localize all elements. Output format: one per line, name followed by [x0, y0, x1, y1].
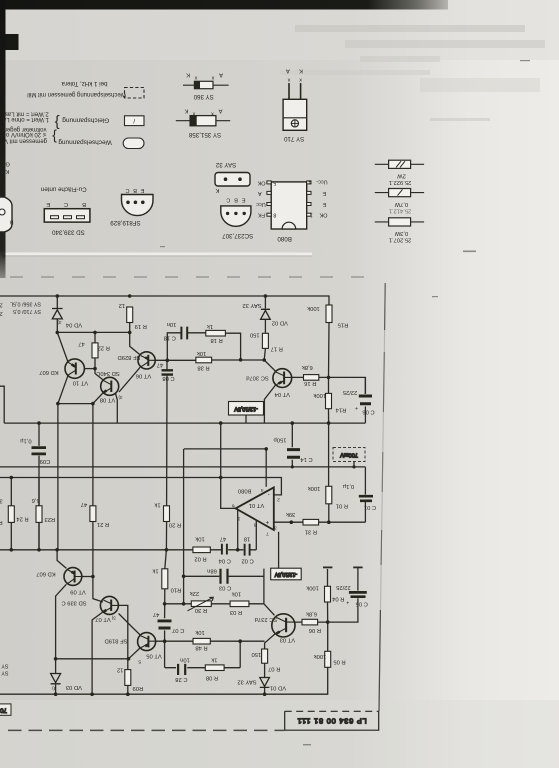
node row550-R23	[37, 548, 41, 552]
svg-text:2W: 2W	[397, 173, 406, 179]
svg-text:C 02: C 02	[241, 558, 253, 564]
svg-text:Ucc: Ucc	[256, 201, 266, 207]
legend symbol: dashed box (AC voltage frame)	[125, 88, 145, 99]
wire rail tick C05	[353, 566, 362, 568]
wire opamp pin1 column	[237, 510, 239, 550]
wire R02 C03 column	[183, 478, 185, 604]
resistor R38	[196, 357, 212, 363]
wire R23 column	[38, 478, 40, 550]
capacitor C08	[162, 370, 174, 374]
wire VT08 collector to row 423	[116, 394, 118, 423]
node row423-C14	[291, 421, 295, 425]
node bus296-R19	[128, 294, 132, 298]
svg-text:0,3W: 0,3W	[394, 230, 408, 236]
svg-text:C 01: C 01	[364, 504, 376, 510]
svg-text:OK: OK	[319, 212, 327, 218]
svg-text:E: E	[46, 201, 50, 207]
svg-text:100k: 100k	[313, 392, 326, 398]
node row641-C07	[163, 639, 167, 643]
wire left edge stub	[0, 386, 4, 423]
capacitor C02	[245, 544, 250, 556]
svg-text:2: 2	[0, 302, 3, 308]
node row360-C08	[166, 359, 170, 363]
svg-text:+: +	[355, 405, 358, 411]
wire R14 column to row 423	[328, 409, 330, 423]
wire feedback row 477	[0, 478, 281, 495]
node row550-pin1	[236, 548, 240, 552]
wire R30 R03 row	[165, 603, 264, 605]
svg-text:SAY 32: SAY 32	[242, 302, 261, 308]
wire C06 top column	[364, 377, 366, 394]
svg-text:0,1µ: 0,1µ	[342, 483, 354, 489]
bottom fold dashed line	[8, 729, 285, 731]
svg-text:K: K	[1, 252, 5, 258]
svg-text:25.412.1: 25.412.1	[389, 208, 412, 214]
svg-text:22/25: 22/25	[336, 584, 351, 590]
box label 70 page edge	[0, 704, 11, 715]
svg-text:R23: R23	[44, 516, 55, 522]
wire C28 R08 row	[165, 667, 240, 669]
svg-text:12: 12	[117, 667, 123, 673]
wire output column	[221, 423, 236, 508]
package KD607 (cut at page edge)	[0, 161, 13, 259]
svg-text:VT 08: VT 08	[100, 396, 115, 402]
resistor R06	[302, 619, 318, 625]
svg-text:5,6: 5,6	[32, 497, 40, 503]
node row604-R10	[163, 602, 167, 606]
svg-text:R 30: R 30	[195, 607, 207, 613]
node pin3-R31	[290, 520, 294, 524]
svg-text:R15: R15	[338, 322, 349, 328]
resistor R48	[193, 638, 210, 644]
svg-text:KD 607: KD 607	[39, 369, 58, 375]
svg-text:A: A	[218, 108, 222, 114]
resistor R21	[90, 506, 96, 522]
wire VT04 base diagonal	[264, 360, 275, 371]
svg-text:47: 47	[157, 362, 163, 368]
svg-text:Cu-Fläche unten: Cu-Fläche unten	[40, 186, 86, 193]
svg-text:700mV: 700mV	[340, 452, 358, 458]
diode SY360	[183, 72, 229, 101]
svg-text:12: 12	[119, 302, 125, 308]
node VT10 base	[93, 367, 97, 371]
resistor R17	[262, 333, 268, 348]
wire R16 row	[292, 377, 366, 393]
svg-text:1.Wert = ohne La: 1.Wert = ohne La	[2, 116, 49, 122]
svg-text:Gleichspannung: Gleichspannung	[62, 116, 109, 123]
svg-text:SD 339,340: SD 339,340	[52, 228, 85, 235]
diode package SY710	[283, 68, 307, 142]
svg-text:SAY 32: SAY 32	[237, 679, 256, 685]
svg-text:R 02: R 02	[194, 556, 206, 562]
svg-text:R 22: R 22	[98, 345, 110, 351]
wire C08 column	[165, 360, 168, 550]
legend symbol: AC stadium	[123, 138, 144, 149]
svg-text:25.207.1: 25.207.1	[389, 237, 412, 243]
svg-text:R 20: R 20	[169, 522, 181, 528]
dashed separator line above schematic	[10, 276, 378, 278]
svg-text:E: E	[242, 197, 246, 203]
node row360-R18	[239, 358, 243, 362]
box label 700mV dashed	[333, 448, 365, 462]
wire VT06 collector diagonal	[119, 367, 140, 392]
node row467-700mV	[352, 465, 355, 468]
svg-text:SC 237d: SC 237d	[255, 616, 278, 622]
wire VT10 base	[84, 368, 95, 370]
svg-text:R: R	[0, 519, 3, 525]
wire VD03 column	[55, 659, 57, 694]
black scanner bar left	[0, 0, 6, 278]
node row423-output	[219, 421, 223, 425]
svg-text:70: 70	[0, 707, 7, 713]
svg-text:B080: B080	[238, 488, 252, 494]
resistor R15	[326, 305, 332, 323]
svg-text:VT 03: VT 03	[280, 636, 295, 642]
wire output node column left	[57, 404, 59, 550]
svg-text:Ge: Ge	[2, 161, 10, 167]
diode VD01 (SAY32)	[260, 678, 270, 688]
resistor R05	[325, 651, 331, 667]
svg-text:C 04: C 04	[218, 558, 231, 564]
svg-text:R 04: R 04	[331, 596, 344, 602]
wire R01 column	[328, 423, 330, 522]
svg-text:SAY 32: SAY 32	[215, 161, 236, 168]
svg-text:E: E	[140, 187, 144, 193]
resistor R30 (trimmer)	[191, 601, 211, 607]
diode VD02 (SAY32)	[261, 309, 271, 319]
svg-text:R 38: R 38	[197, 364, 209, 370]
wire VT09 output row	[82, 576, 93, 578]
wire row 332 left	[57, 331, 129, 333]
node bus694-VD01	[263, 692, 267, 696]
svg-text:}: }	[55, 114, 60, 131]
svg-text:39k: 39k	[286, 511, 295, 517]
svg-text:x: x	[211, 75, 214, 81]
svg-text:x: x	[287, 77, 290, 83]
package SC237/307	[221, 197, 253, 239]
transistor VT07	[100, 596, 118, 614]
svg-text:0,7W: 0,7W	[394, 201, 408, 207]
node row604-R02col	[182, 602, 186, 606]
svg-text:6,8k: 6,8k	[302, 364, 313, 370]
svg-text:2: 2	[0, 310, 3, 316]
svg-text:47: 47	[78, 341, 84, 347]
svg-text:/: /	[133, 117, 135, 124]
wire VT10 emitter diagonal	[58, 376, 68, 404]
node row550-VT09base	[55, 548, 59, 552]
svg-text:x: x	[211, 111, 214, 117]
node row641-R08col	[238, 639, 242, 643]
node row332-R19	[128, 331, 132, 335]
svg-text:SF819,829: SF819,829	[110, 219, 141, 226]
svg-text:K: K	[299, 68, 303, 74]
resistor R20	[164, 506, 170, 522]
resistor R14	[326, 393, 332, 408]
wire R15 column	[328, 323, 331, 394]
node row467-C14	[291, 465, 294, 468]
svg-text:100k: 100k	[308, 485, 321, 491]
diode SY351/358	[176, 108, 230, 138]
svg-text:1k: 1k	[152, 568, 158, 574]
svg-text:3): 3)	[118, 395, 123, 400]
node VT09-VT07base	[91, 575, 95, 579]
svg-text:SC 307d: SC 307d	[246, 374, 269, 380]
resistor R04	[325, 586, 331, 602]
wire row 659	[56, 658, 129, 660]
wire row 360	[155, 359, 264, 361]
svg-text:R 06: R 06	[309, 627, 321, 633]
wire C18 R18 row	[167, 333, 240, 361]
svg-text:VD 02: VD 02	[272, 319, 288, 325]
node row659 left	[54, 657, 58, 661]
node bus296-VD02	[264, 294, 268, 298]
svg-text:B: B	[133, 187, 137, 193]
transistor VT06	[138, 352, 155, 369]
svg-text:R 08: R 08	[206, 674, 218, 680]
svg-text:SC237,307: SC237,307	[222, 232, 254, 239]
svg-text:1k: 1k	[154, 501, 160, 507]
svg-text:-: -	[268, 491, 270, 498]
capacitor C07	[158, 621, 172, 628]
capacitor C28	[178, 664, 185, 675]
node row477-output	[219, 476, 223, 480]
svg-text:22/25: 22/25	[343, 389, 358, 395]
svg-text:10k: 10k	[195, 629, 204, 635]
svg-text:6,8k: 6,8k	[306, 611, 317, 617]
svg-text:3: 3	[0, 498, 3, 504]
resistor R31	[303, 519, 319, 525]
wire C09 column	[38, 423, 40, 550]
svg-text:6: 6	[232, 502, 235, 508]
legend resistor 0,3W 25.207.1	[375, 218, 424, 243]
wire C05 column	[328, 567, 358, 622]
svg-text:Wechselspannung: Wechselspannung	[58, 139, 112, 146]
resistor R23	[36, 506, 42, 523]
IC package B080	[256, 178, 328, 242]
svg-text:C 14: C 14	[300, 456, 313, 462]
svg-text:C 07: C 07	[172, 627, 184, 633]
node 150p-pin4	[264, 447, 268, 451]
svg-text:SF 819D: SF 819D	[105, 637, 128, 643]
svg-text:3: 3	[274, 524, 277, 530]
svg-text:R 17: R 17	[271, 345, 283, 351]
wire R10 C07 column	[165, 550, 167, 668]
wire rail tick R04	[323, 566, 332, 568]
svg-text:R10: R10	[171, 587, 182, 593]
svg-text:SD 340C: SD 340C	[96, 370, 120, 376]
svg-text:}: }	[52, 130, 57, 146]
svg-text:C 06: C 06	[362, 409, 374, 415]
node C03row-R02col	[182, 575, 186, 579]
svg-text:SY 710/ 0,5: SY 710/ 0,5	[0, 663, 9, 669]
svg-text:1: 1	[237, 515, 240, 521]
paper crease line	[0, 253, 312, 256]
resistor R24	[8, 506, 14, 523]
svg-text:VT 04: VT 04	[274, 391, 290, 397]
svg-text:R 03: R 03	[230, 609, 242, 615]
node row423-C09	[37, 421, 41, 425]
transistor VT10	[65, 359, 84, 378]
svg-text:1k: 1k	[207, 323, 213, 329]
node bus694-VD03	[54, 692, 58, 696]
wire R04 column	[327, 569, 329, 651]
svg-text:150: 150	[250, 332, 260, 338]
resistor R22	[92, 343, 98, 358]
package SF819/829	[110, 187, 153, 226]
svg-text:R 24: R 24	[16, 516, 29, 522]
wire VT05 emitter row	[156, 640, 265, 642]
package SD339/340	[44, 201, 90, 235]
svg-text:47: 47	[81, 501, 87, 507]
svg-text:SY 710: SY 710	[283, 135, 304, 142]
wire VT05 collector diagonal	[119, 614, 141, 636]
svg-text:47: 47	[220, 535, 226, 541]
resistor R18	[206, 330, 226, 336]
svg-text:C 28: C 28	[175, 676, 187, 682]
svg-text:4: 4	[261, 487, 264, 493]
svg-text:5: 5	[138, 658, 141, 664]
svg-text:OK: OK	[257, 179, 265, 185]
wire 700mV box stub	[353, 462, 355, 467]
svg-text:voltmeter gegen: voltmeter gegen	[3, 126, 46, 132]
svg-text:10k: 10k	[195, 535, 204, 541]
node row659-VT05	[127, 657, 131, 661]
wire VT04 collector	[264, 385, 275, 423]
wire opamp pin4 column	[265, 449, 267, 487]
svg-text:R 19: R 19	[135, 323, 147, 329]
wire C03 row	[184, 575, 264, 577]
node bus296-VD04	[56, 294, 60, 298]
node row360-R17	[262, 358, 266, 362]
svg-text:SY 710/ 0,5: SY 710/ 0,5	[13, 308, 41, 314]
wire VD02 R17 column	[264, 296, 265, 360]
paper specks	[160, 60, 530, 745]
svg-text:0,1µ: 0,1µ	[20, 437, 32, 443]
svg-text:R14: R14	[335, 407, 346, 413]
svg-text:150p: 150p	[274, 437, 287, 443]
box label LP 634 00 81 111	[285, 711, 379, 730]
svg-text:68n: 68n	[207, 568, 217, 574]
svg-text:SY 360: SY 360	[193, 93, 214, 100]
svg-text:SF 829D: SF 829D	[118, 354, 141, 360]
svg-text:4: 4	[308, 178, 311, 184]
wire VD04 column	[56, 296, 58, 332]
wire R21 column VT07 base	[93, 404, 103, 602]
svg-text:VD 01: VD 01	[270, 685, 286, 691]
svg-text:E: E	[322, 190, 326, 196]
svg-text:VT 06: VT 06	[136, 373, 151, 379]
svg-text:SY 356/ 0,5L: SY 356/ 0,5L	[10, 300, 41, 306]
transistor VT04	[273, 369, 292, 388]
svg-text:E: E	[322, 201, 326, 207]
node R16-R15	[327, 376, 331, 380]
svg-text:C 03: C 03	[219, 585, 231, 591]
legend resistor 2W 25.922.1	[375, 160, 424, 185]
capacitor C03	[221, 569, 228, 584]
wire VT08 base diagonal	[95, 369, 103, 380]
node bus694-VT07	[90, 692, 94, 696]
wire VT09 collector diagonal	[56, 584, 67, 658]
resistor R03	[230, 601, 249, 607]
resistor R09	[125, 670, 131, 686]
svg-text:R 05: R 05	[333, 658, 345, 664]
svg-text:8: 8	[273, 212, 276, 218]
svg-text:R09: R09	[133, 685, 144, 691]
svg-text:18: 18	[244, 535, 250, 541]
svg-text:3): 3)	[111, 615, 116, 620]
op-amp U1 B080 VT01	[236, 487, 274, 530]
node row332-R22	[93, 331, 97, 335]
node row332-VD04	[56, 331, 60, 335]
svg-text:B: B	[234, 197, 238, 203]
node row477-R24	[10, 476, 14, 480]
wire R22 column	[94, 332, 96, 368]
wire bottom bus	[0, 667, 328, 694]
transistor VT08	[101, 377, 119, 395]
svg-text:100k: 100k	[306, 585, 319, 591]
wire C06 column	[364, 406, 366, 423]
svg-text:+: +	[346, 599, 349, 605]
wire C01 column	[364, 467, 366, 522]
svg-text:VD 03: VD 03	[66, 684, 82, 690]
package SAY32	[215, 161, 250, 193]
svg-text:R 18: R 18	[210, 337, 222, 343]
svg-text:5: 5	[273, 179, 276, 185]
svg-text:B080: B080	[277, 235, 292, 242]
black tab mark	[6, 34, 19, 50]
transistor VT03	[272, 614, 295, 637]
resistor R08	[205, 665, 224, 671]
wire VT08 emitter diagonal	[93, 393, 103, 404]
wire C14 column	[291, 423, 293, 467]
wire VT09 base diagonal	[57, 550, 66, 569]
wire VT07 emitter row	[118, 605, 127, 669]
resistor R10	[162, 569, 168, 589]
transistor VT09	[64, 568, 82, 586]
diode VD03	[51, 674, 61, 684]
svg-text:C 18: C 18	[164, 335, 176, 341]
wire R08 column	[239, 641, 241, 668]
trimmer arrow R30	[188, 597, 214, 611]
node row403 left	[56, 402, 60, 406]
scan streaks top right	[280, 25, 545, 121]
svg-text:R 01: R 01	[336, 502, 348, 508]
svg-text:Ucc-: Ucc-	[316, 178, 327, 184]
svg-text:VD 04: VD 04	[65, 321, 82, 327]
svg-text:7: 7	[266, 530, 269, 536]
svg-text:SY 356/ 0,5L: SY 356/ 0,5L	[0, 670, 9, 676]
svg-text:-12/10,5V: -12/10,5V	[274, 571, 297, 577]
wire R09 to bus	[127, 685, 129, 694]
svg-text:SD 339 C: SD 339 C	[61, 599, 86, 605]
wire VT03 emitter to R07	[265, 634, 276, 649]
transistor VT05	[138, 633, 156, 651]
wire row 403	[58, 403, 93, 405]
svg-text:150: 150	[251, 651, 261, 657]
node R06-R04	[326, 620, 330, 624]
svg-text:x: x	[192, 111, 195, 117]
node row403 right	[91, 402, 95, 406]
wire R07 VD01 column	[264, 663, 266, 694]
svg-text:+: +	[265, 518, 269, 525]
svg-text:B: B	[82, 201, 86, 207]
svg-text:3): 3)	[52, 686, 57, 691]
svg-text:10n: 10n	[167, 321, 177, 327]
resistor R07	[262, 649, 268, 663]
svg-text:R 48: R 48	[195, 645, 207, 651]
resistor R01	[326, 486, 332, 504]
svg-text:B: B	[9, 219, 13, 225]
